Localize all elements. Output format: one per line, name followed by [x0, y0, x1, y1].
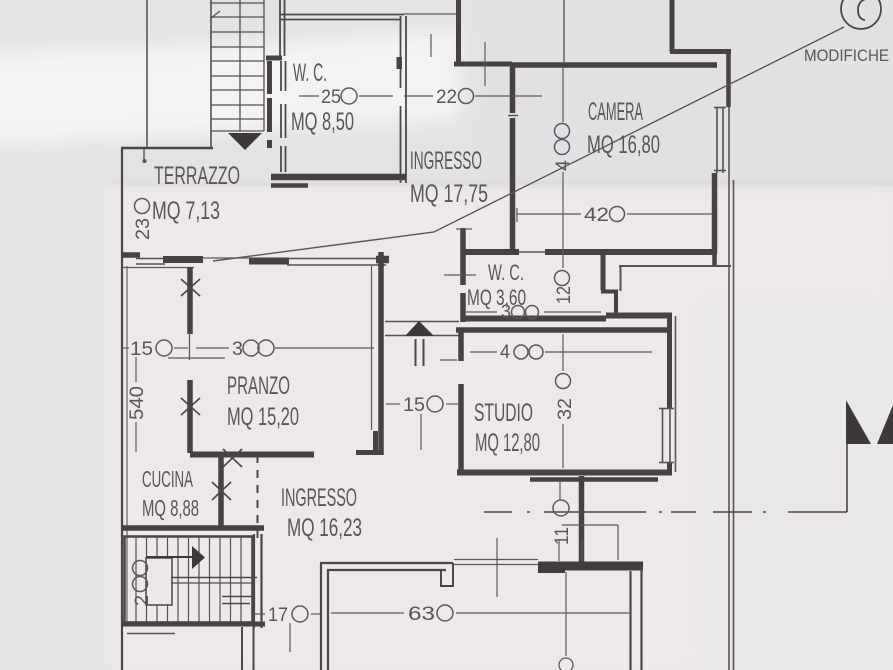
svg-text:63: 63 [408, 604, 435, 625]
terrazzo-pranzo top wall: left corner pier [122, 252, 140, 258]
pranzo bottom stub [373, 431, 378, 455]
dim 420 lines [516, 213, 581, 215]
svg-text:2: 2 [132, 595, 153, 606]
studio bottom ledge [530, 477, 658, 482]
svg-text:STUDIO: STUDIO [474, 399, 533, 427]
dim 110 witness [559, 480, 561, 499]
svg-text:CUCINA: CUCINA [142, 466, 193, 492]
left margin shading [0, 150, 112, 670]
svg-text:MQ 12,80: MQ 12,80 [475, 429, 540, 457]
studio top wall [456, 327, 672, 333]
wc2 left wall top cap [456, 228, 472, 230]
dim 250 lines [299, 95, 319, 97]
svg-text:15: 15 [130, 339, 153, 360]
pier 3 [249, 258, 289, 265]
dim 630 circle [437, 605, 453, 621]
dim 300 pranzo circles [243, 340, 259, 356]
terrace door threshold lines [454, 559, 538, 561]
centerline dash-dot [484, 511, 847, 513]
window 2 (long) [287, 258, 386, 260]
corridor wall to boundary [619, 265, 731, 267]
dim 300 wc2 circles [512, 306, 525, 319]
svg-text:MQ 7,13: MQ 7,13 [152, 197, 220, 225]
cucina-ingresso wall [218, 457, 224, 527]
svg-text:TERRAZZO: TERRAZZO [154, 162, 240, 190]
dim 220 circle [459, 89, 474, 104]
window 1 [136, 258, 165, 260]
svg-text:MQ 8,88: MQ 8,88 [142, 495, 199, 521]
wc1 top wall double [280, 14, 404, 16]
left outer wall (double) [121, 148, 123, 670]
upper staircase left rail [210, 0, 212, 148]
landing left boundary line [146, 0, 148, 148]
dim 170 circle [292, 606, 308, 622]
camera right wall lower [712, 173, 718, 253]
pranzo left wall lower [187, 380, 193, 453]
witness line ingresso bottom [496, 538, 498, 597]
dim 540 witness [135, 357, 137, 382]
wc2 right wall [601, 254, 606, 290]
svg-text:3: 3 [232, 339, 243, 360]
door threshold [203, 257, 251, 259]
north arrow [405, 321, 434, 336]
top right jog wall vertical [670, 0, 675, 52]
fold shadow band [0, 176, 893, 191]
modification leader line [213, 27, 844, 261]
svg-text:MQ 15,20: MQ 15,20 [227, 403, 299, 431]
studio bottom wall [457, 470, 672, 476]
left terrace parapet left (double) [320, 563, 322, 670]
svg-text:MQ 16,23: MQ 16,23 [287, 514, 362, 542]
pranzo bottom wall right piece [356, 450, 381, 455]
landing wall below jog (with door gaps) [267, 61, 272, 94]
pranzo left door leaf line [189, 332, 191, 360]
dim 320 circle [556, 374, 571, 389]
wall above camera left [454, 62, 512, 67]
dim 400 camera witness [562, 68, 564, 122]
svg-text:W. C.: W. C. [293, 59, 327, 87]
dim 400 camera circles [555, 124, 570, 139]
svg-text:32: 32 [555, 398, 576, 420]
door X mark 4 [212, 482, 231, 500]
wall below studio to terrace [579, 476, 585, 563]
wc1 bottom ledge [271, 183, 308, 188]
svg-text:MQ 16,80: MQ 16,80 [587, 131, 660, 159]
terrazzo inner bottom line [122, 267, 194, 269]
cucina bottom wall [122, 525, 264, 531]
dim 150 left circle [156, 340, 172, 356]
pranzo right wall [378, 252, 384, 455]
centerline right riser [846, 444, 848, 512]
svg-text:INGRESSO: INGRESSO [281, 484, 357, 512]
right boundary outer double line [728, 107, 730, 670]
section triangle left [846, 400, 871, 444]
terrace corner witness L [562, 524, 618, 526]
window X mark 1 [181, 279, 200, 296]
wc2 jog vertical [614, 291, 618, 314]
bright band upper left [0, 30, 460, 148]
dim 200 circles [133, 561, 148, 576]
studio right wall upper [667, 330, 672, 408]
wc1 right wall double [400, 16, 402, 88]
dim 400 studio circles [514, 345, 528, 359]
stair direction arrow [192, 546, 205, 569]
upper staircase risers [211, 3, 264, 131]
left terrace parapet top (double) [320, 562, 453, 564]
bottom outer wall [122, 622, 265, 627]
svg-text:4: 4 [500, 342, 510, 363]
wc2 left wall upper piece [460, 228, 466, 285]
window X mark 2 [181, 398, 200, 415]
camera left wall [510, 67, 516, 113]
studio left wall lower [458, 384, 464, 473]
top right jog wall down [726, 49, 731, 107]
wc2 jog horizontal [601, 290, 618, 294]
extra dim line left [168, 357, 225, 359]
right terrace parapet top (thick) [538, 562, 643, 571]
camera bottom wall with door gap [463, 249, 519, 255]
wc1 bottom wall [271, 174, 406, 181]
camera top wall [510, 62, 717, 68]
svg-text:MQ 17,75: MQ 17,75 [410, 180, 488, 208]
studio window right [659, 408, 674, 463]
top right jog wall horizontal [670, 49, 731, 54]
terrazzo top wall [121, 147, 213, 149]
stair top tick [211, 11, 220, 18]
pranzo bottom wall [190, 452, 314, 458]
terrazzo corner tick [143, 148, 145, 160]
svg-text:42: 42 [584, 205, 609, 226]
camera upper partition line [563, 0, 565, 62]
upper staircase right rail [263, 0, 265, 131]
dim 150 corridor circle [427, 396, 443, 412]
svg-text:4: 4 [553, 160, 574, 171]
thin top line right of wc1 [403, 13, 456, 15]
dashed opening line [257, 455, 259, 541]
dim 630 lines [331, 612, 404, 614]
pranzo right wall inner face line [371, 266, 373, 430]
stair down arrow [228, 133, 262, 150]
small dash near arrow [440, 359, 457, 361]
window X mark 3 [223, 449, 242, 467]
svg-text:17: 17 [268, 605, 288, 626]
corridor wall stub down [620, 266, 622, 291]
camera left wall cap [508, 115, 518, 117]
upper right cooler gray [480, 0, 893, 182]
pranzo left wall upper [187, 267, 193, 334]
lower paper warm tint [110, 188, 893, 670]
svg-text:15: 15 [403, 395, 425, 416]
dim 120 circle [555, 271, 570, 286]
dim 300 pranzo lines [196, 347, 229, 349]
landing-wc jog [266, 56, 282, 61]
camera bottom right corner stub [712, 252, 717, 266]
dim 300 wc2 lines [466, 311, 497, 313]
svg-text:11: 11 [552, 527, 573, 545]
dim 400 studio lines [470, 351, 497, 353]
dimension circles (zeros) [133, 88, 625, 622]
dim 110 circle [553, 500, 569, 516]
svg-text:3: 3 [501, 302, 511, 323]
svg-text:CAMERA: CAMERA [588, 98, 643, 126]
bottom cut circle [559, 658, 573, 670]
wc2 bottom wall [463, 316, 606, 322]
left terrace pocket [441, 563, 453, 587]
wall below stair block (double) [241, 627, 243, 670]
dim 170 lines [255, 613, 265, 615]
svg-text:MQ 8,50: MQ 8,50 [291, 108, 354, 136]
studio right wall outer line [675, 316, 677, 472]
modification circle [841, 0, 881, 29]
svg-text:W. C.: W. C. [488, 260, 524, 285]
stair direction arrow stem [147, 556, 193, 558]
upper staircase middle rail [239, 0, 241, 131]
dim 420 circle [610, 207, 625, 222]
wall wc2 to studio corner [606, 313, 672, 319]
staircase landing void [146, 558, 172, 605]
corner stub down [667, 313, 672, 331]
section triangle right [877, 405, 893, 444]
wc1 right wall nub [397, 57, 403, 69]
dim 230 circle [135, 199, 150, 214]
wc1 left wall upper double [279, 0, 281, 56]
pier 2 [163, 256, 203, 263]
svg-text:MQ 3,60: MQ 3,60 [467, 285, 526, 310]
dim 250 circle [341, 88, 357, 104]
corridor opening lines [385, 321, 459, 323]
dim 220 lines [404, 95, 433, 97]
camera window right upper [714, 107, 726, 173]
svg-text:22: 22 [436, 87, 457, 108]
svg-text:25: 25 [321, 87, 341, 108]
svg-text:PRANZO: PRANZO [227, 372, 290, 400]
dim 150 left lines [122, 347, 129, 349]
lower staircase outer box [125, 537, 253, 623]
svg-text:540: 540 [127, 386, 148, 420]
dim 320 witness [562, 334, 564, 371]
right terrace parapet right (double) [629, 571, 631, 670]
studio right wall lower stub [667, 463, 672, 474]
stair equals mark [222, 596, 252, 598]
wc2 left wall lower piece [460, 293, 466, 322]
bottom right lighter zone [700, 300, 893, 670]
svg-text:MODIFICHE: MODIFICHE [804, 46, 889, 65]
dim 220 witness ticks [430, 34, 432, 57]
lower staircase risers [136, 538, 241, 622]
staircase landing lines [171, 577, 257, 579]
svg-text:23: 23 [133, 218, 154, 240]
letter inside circle [858, 0, 866, 20]
terrace inner witness line [565, 572, 567, 656]
studio left wall upper [458, 330, 464, 361]
upper gray zone above fold [0, 0, 893, 180]
wall stub below stair block left [127, 633, 175, 635]
svg-text:12: 12 [554, 286, 575, 304]
dim 150 corridor lines [386, 403, 400, 405]
ingresso top partition wall [456, 0, 461, 62]
leader dash wc2 [444, 274, 476, 276]
right terrace parapet step left [538, 565, 565, 573]
pranzo top right corner pier [376, 256, 389, 264]
stair block right wall (double) [253, 534, 255, 628]
wc1 left wall lower segments [281, 61, 286, 172]
svg-text:INGRESSO: INGRESSO [410, 147, 482, 175]
